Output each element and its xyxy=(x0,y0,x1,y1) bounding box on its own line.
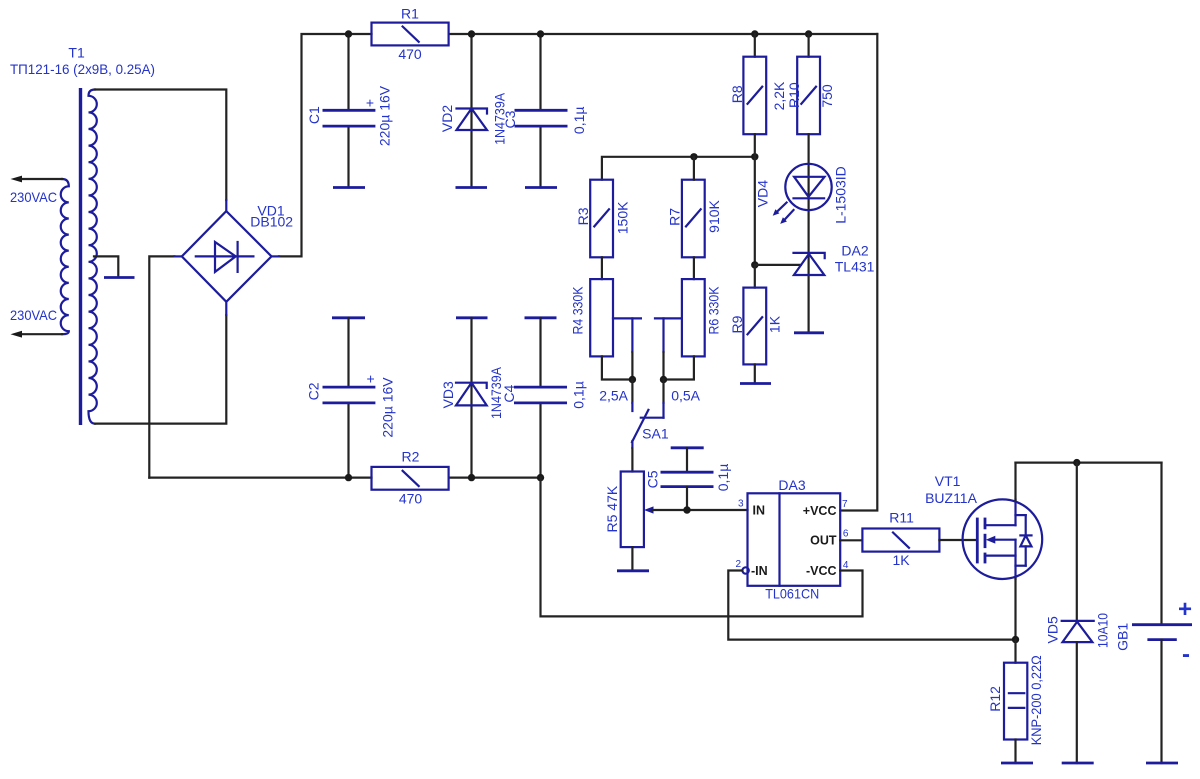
svg-text:TL431: TL431 xyxy=(835,258,875,274)
wire C1 top lead xyxy=(347,34,349,110)
svg-text:910K: 910K xyxy=(706,199,722,232)
wire primary bottom lead 230VAC xyxy=(21,333,62,335)
wire C3 bottom lead xyxy=(539,126,541,187)
switch SA1 xyxy=(632,403,664,448)
svg-text:+VCC: +VCC xyxy=(803,504,837,518)
svg-text:VT1: VT1 xyxy=(935,473,961,489)
resistor R2 xyxy=(372,467,449,490)
svg-text:2,5A: 2,5A xyxy=(599,388,628,404)
wire battery top rail xyxy=(1016,462,1162,464)
svg-text:R9: R9 xyxy=(729,315,745,333)
resistor R11 xyxy=(862,529,939,552)
svg-text:470: 470 xyxy=(398,46,422,62)
shunt regulator DA2 TL431 xyxy=(794,253,825,275)
resistor R12 xyxy=(1004,640,1027,764)
svg-text:750: 750 xyxy=(819,84,835,108)
resistor R8 xyxy=(743,34,766,157)
svg-text:0,5A: 0,5A xyxy=(671,388,700,404)
svg-text:220µ 16V: 220µ 16V xyxy=(377,85,393,146)
svg-text:10A10: 10A10 xyxy=(1095,613,1111,648)
resistor R4 with tap xyxy=(590,279,641,356)
wire bridge right vertex up to top rail xyxy=(279,34,372,256)
wire C3 top lead xyxy=(539,34,541,110)
ground C3 xyxy=(525,186,557,189)
svg-text:0,1µ: 0,1µ xyxy=(571,107,587,135)
svg-text:-: - xyxy=(1182,641,1190,668)
svg-text:R1: R1 xyxy=(401,6,419,22)
battery GB1 xyxy=(1132,625,1192,640)
potentiometer R5 xyxy=(621,472,644,548)
wire C1 bottom lead xyxy=(347,126,349,187)
wire switch right contact xyxy=(662,380,664,403)
svg-text:1K: 1K xyxy=(892,552,910,568)
svg-text:3: 3 xyxy=(738,499,744,510)
ground VD2 xyxy=(456,186,488,189)
svg-text:1K: 1K xyxy=(767,315,783,333)
svg-text:KNP-200 0,22Ω: KNP-200 0,22Ω xyxy=(1028,655,1044,745)
wire node to IN pin xyxy=(687,509,748,511)
node R8 bottom xyxy=(751,153,758,160)
capacitor C2 xyxy=(323,387,376,403)
junction dots bottom rail xyxy=(345,474,352,481)
wire mid power net y157 xyxy=(602,157,755,180)
ground VD5 xyxy=(1062,762,1094,765)
svg-text:VD3: VD3 xyxy=(440,381,456,408)
wire VD2 lead xyxy=(470,34,472,188)
svg-text:C5: C5 xyxy=(645,470,661,488)
junction dots top rail xyxy=(345,30,352,37)
wire SA1 to R5 xyxy=(631,448,633,472)
node VD5 top xyxy=(1073,459,1080,466)
svg-text:+: + xyxy=(366,95,374,111)
wire wiper to node xyxy=(652,509,687,511)
svg-text:VD2: VD2 xyxy=(439,105,455,132)
svg-text:R8: R8 xyxy=(729,85,745,103)
resistor R3 xyxy=(590,180,613,258)
svg-text:R7: R7 xyxy=(667,208,683,226)
svg-text:GB1: GB1 xyxy=(1115,623,1131,651)
arrow primary top xyxy=(11,176,23,183)
svg-text:230VAC: 230VAC xyxy=(10,189,57,205)
svg-text:C3: C3 xyxy=(502,110,518,128)
ground bar center tap xyxy=(104,276,135,279)
wire R8 node down xyxy=(754,157,756,265)
svg-text:L-1503ID: L-1503ID xyxy=(833,166,849,224)
svg-text:4: 4 xyxy=(843,560,849,571)
resistor R7 xyxy=(682,157,705,257)
wire bridge left vertex to bottom rail xyxy=(149,256,174,477)
arrow primary bottom xyxy=(11,331,23,338)
ground GB1 xyxy=(1146,762,1178,765)
svg-text:SA1: SA1 xyxy=(642,425,669,441)
wire VD5 top lead xyxy=(1076,463,1078,621)
wire GB1 bottom lead xyxy=(1160,640,1162,763)
svg-text:R5 47K: R5 47K xyxy=(604,485,620,532)
ground VD3 top xyxy=(456,316,488,319)
svg-text:7: 7 xyxy=(842,499,848,510)
wire bottom rail right of R2 xyxy=(449,477,541,479)
MOSFET VT1 xyxy=(963,499,1043,579)
wire R10 to LED to DA2 xyxy=(807,134,809,333)
svg-text:IN: IN xyxy=(753,504,766,518)
svg-text:T1: T1 xyxy=(68,45,85,61)
wire VD5 bottom lead xyxy=(1076,642,1078,763)
svg-text:VD5: VD5 xyxy=(1044,616,1060,643)
transformer T1 core xyxy=(79,88,82,425)
op-amp DA3 box xyxy=(748,493,841,586)
svg-text:+: + xyxy=(367,370,375,386)
svg-text:6: 6 xyxy=(843,529,849,540)
wire GB1 top lead xyxy=(1160,463,1162,625)
svg-text:C1: C1 xyxy=(306,106,322,124)
LED VD4 xyxy=(773,164,832,224)
R5 wiper arrow xyxy=(644,506,654,513)
ground C2 top xyxy=(332,316,365,319)
wire secondary center tap xyxy=(94,256,118,276)
diode VD5 xyxy=(1062,621,1094,642)
svg-text:OUT: OUT xyxy=(810,534,837,548)
svg-text:R2: R2 xyxy=(402,449,420,465)
svg-text:DA2: DA2 xyxy=(841,242,868,258)
ground C1 xyxy=(333,186,365,189)
DA3 pin 2 bubble xyxy=(742,567,748,573)
wire VD3 lead xyxy=(470,318,472,478)
svg-text:-VCC: -VCC xyxy=(806,564,837,578)
capacitor C4 xyxy=(514,387,567,403)
wire R6 bottom to node xyxy=(664,356,694,379)
wire R3-R4 xyxy=(601,257,603,279)
svg-text:R12: R12 xyxy=(987,686,1003,712)
svg-text:470: 470 xyxy=(399,491,423,507)
svg-text:ТП121-16 (2x9В, 0.25А): ТП121-16 (2x9В, 0.25А) xyxy=(10,61,155,77)
wire -VCC loop xyxy=(541,478,863,617)
capacitor C5 xyxy=(661,472,714,486)
wire C5 bottom lead xyxy=(686,487,688,510)
wire C5 top lead xyxy=(686,448,688,472)
svg-text:+: + xyxy=(1178,596,1192,623)
wire C2 top lead xyxy=(347,318,349,387)
ground R12 xyxy=(1001,762,1033,765)
ground C4 top xyxy=(525,316,557,319)
svg-text:DA3: DA3 xyxy=(778,477,805,493)
wire R11 to gate xyxy=(939,539,976,541)
wire secondary top to bridge xyxy=(95,90,226,201)
node switch left xyxy=(629,376,636,383)
capacitor C1 xyxy=(323,110,376,126)
wire secondary bottom to bridge bottom xyxy=(95,315,226,424)
ground R5 xyxy=(617,569,649,572)
svg-text:TL061CN: TL061CN xyxy=(765,585,819,601)
svg-text:C4: C4 xyxy=(501,385,517,403)
wire switch left contact xyxy=(631,380,633,403)
transformer T1 primary winding xyxy=(61,179,69,334)
node switch right xyxy=(660,376,667,383)
zener diode VD3 xyxy=(456,383,487,406)
resistor R10 xyxy=(797,34,820,134)
ground C5 top xyxy=(671,446,704,449)
svg-text:-IN: -IN xyxy=(751,564,768,578)
wire -IN loop xyxy=(728,571,1015,640)
svg-text:VD4: VD4 xyxy=(755,180,771,207)
wire R4 tap down xyxy=(631,352,633,380)
wire OUT to R11 xyxy=(840,539,862,541)
node R7 top xyxy=(690,153,697,160)
wire VT1 source xyxy=(1014,579,1016,640)
wire R5 bottom xyxy=(631,547,633,571)
resistor R6 with tap xyxy=(655,279,705,356)
node VT1 source R12 xyxy=(1012,636,1019,643)
svg-text:2: 2 xyxy=(735,559,741,570)
resistor R9 xyxy=(743,265,766,384)
svg-text:DB102: DB102 xyxy=(250,214,293,230)
wire bottom rail xyxy=(149,477,371,479)
svg-text:BUZ11A: BUZ11A xyxy=(925,490,978,506)
svg-text:230VAC: 230VAC xyxy=(10,307,57,323)
svg-text:R10: R10 xyxy=(786,82,802,108)
svg-text:0,1µ: 0,1µ xyxy=(715,464,731,492)
wire C4 top lead xyxy=(539,318,541,387)
zener diode VD2 xyxy=(457,109,488,131)
svg-text:150K: 150K xyxy=(614,201,630,234)
node R9 top / DA2 ref xyxy=(751,261,758,268)
transformer T1 secondary winding xyxy=(89,90,97,424)
svg-text:R3: R3 xyxy=(575,207,591,225)
wire DA2 ref xyxy=(755,264,801,266)
wire C2 bottom lead xyxy=(347,403,349,478)
svg-text:R4 330K: R4 330K xyxy=(569,286,585,335)
wire R7-R6 xyxy=(693,257,695,279)
wire R4 bottom to node xyxy=(602,356,633,379)
wire VT1 drain xyxy=(1014,463,1016,500)
bridge rectifier VD1 xyxy=(174,200,279,315)
wire C4 bottom lead xyxy=(539,403,541,478)
capacitor C3 xyxy=(515,110,568,126)
resistor R1 xyxy=(372,23,449,46)
node C5 wiper xyxy=(683,506,690,513)
svg-text:220µ 16V: 220µ 16V xyxy=(380,377,396,438)
svg-text:R11: R11 xyxy=(889,510,914,526)
wire top rail right of R1 xyxy=(449,33,878,35)
wire +VCC drop xyxy=(840,34,877,511)
ground R9 xyxy=(740,382,771,385)
svg-text:R6 330K: R6 330K xyxy=(706,286,722,335)
wire R6 tap down xyxy=(662,352,664,380)
svg-text:C2: C2 xyxy=(305,382,321,400)
wire primary top lead 230VAC xyxy=(21,178,62,180)
ground DA2 xyxy=(794,331,824,334)
svg-text:2,2K: 2,2K xyxy=(771,81,787,110)
svg-text:0,1µ: 0,1µ xyxy=(570,381,586,409)
